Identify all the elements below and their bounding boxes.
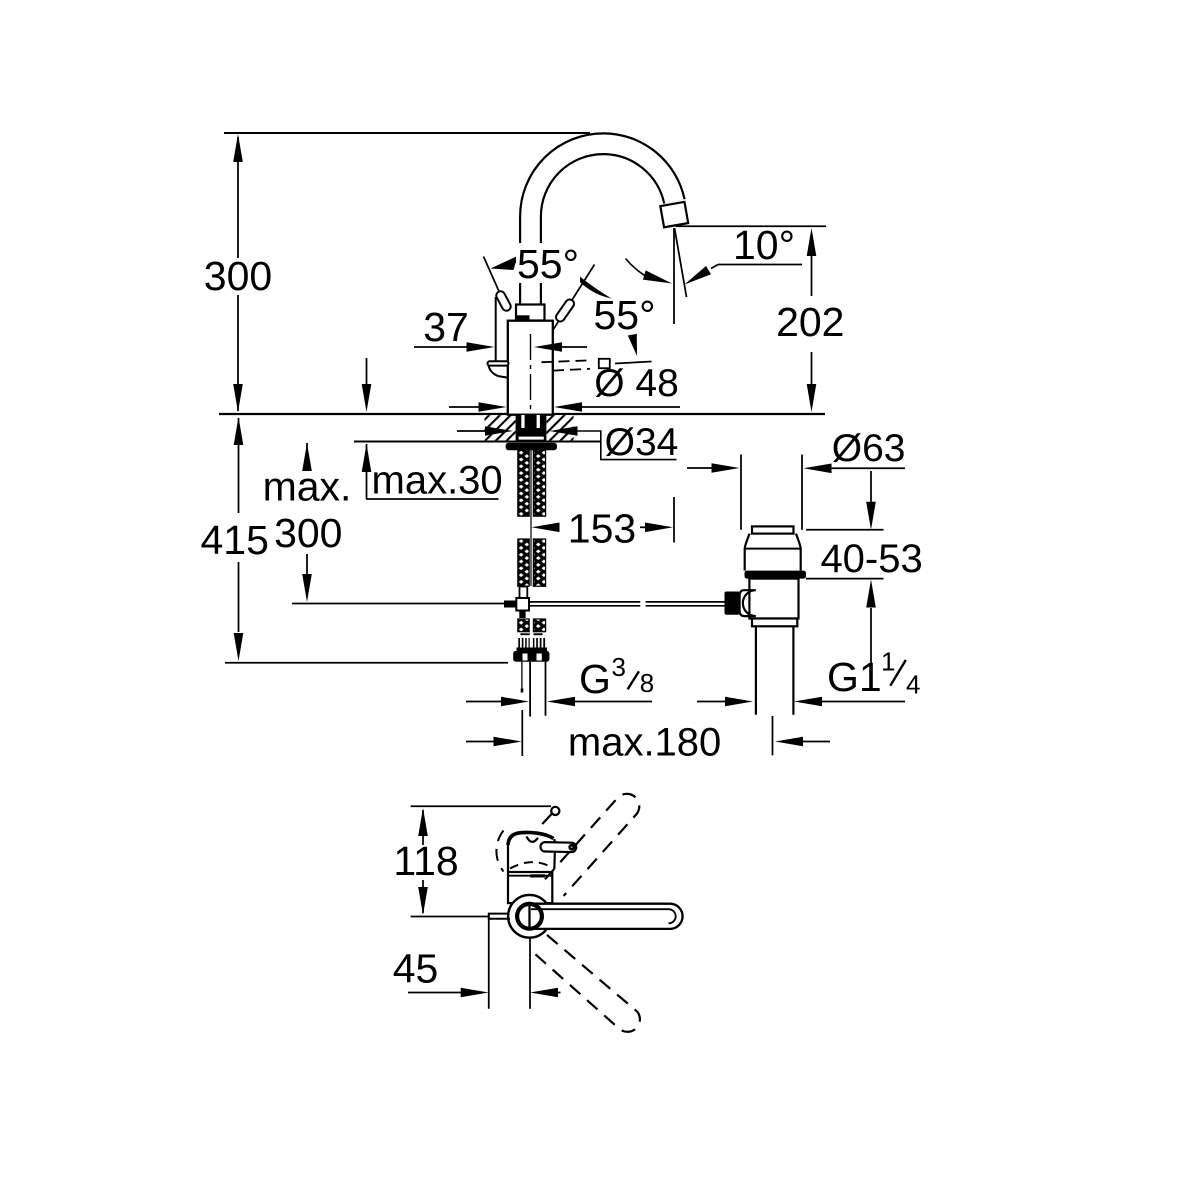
svg-text:40-53: 40-53 xyxy=(820,537,922,581)
svg-text:max.30: max.30 xyxy=(372,459,503,503)
svg-text:Ø34: Ø34 xyxy=(605,421,679,464)
svg-text:4: 4 xyxy=(906,670,920,700)
svg-text:153: 153 xyxy=(568,506,636,552)
svg-text:300: 300 xyxy=(274,510,342,556)
svg-text:Ø63: Ø63 xyxy=(832,427,906,470)
svg-text:45: 45 xyxy=(393,946,439,992)
svg-text:1: 1 xyxy=(881,647,895,677)
svg-text:G1: G1 xyxy=(827,654,882,700)
svg-text:Ø 48: Ø 48 xyxy=(594,362,679,405)
svg-text:37: 37 xyxy=(423,304,469,350)
svg-text:300: 300 xyxy=(204,253,272,299)
svg-text:3: 3 xyxy=(612,652,626,682)
svg-text:max.180: max.180 xyxy=(568,721,721,765)
svg-text:10°: 10° xyxy=(733,222,795,268)
svg-text:8: 8 xyxy=(640,668,654,698)
svg-text:55°: 55° xyxy=(517,241,579,287)
svg-text:G: G xyxy=(579,656,611,702)
svg-text:415: 415 xyxy=(200,517,268,563)
svg-text:max.: max. xyxy=(263,464,352,510)
svg-text:55°: 55° xyxy=(593,292,655,338)
svg-text:118: 118 xyxy=(393,838,458,884)
svg-text:202: 202 xyxy=(776,299,844,345)
